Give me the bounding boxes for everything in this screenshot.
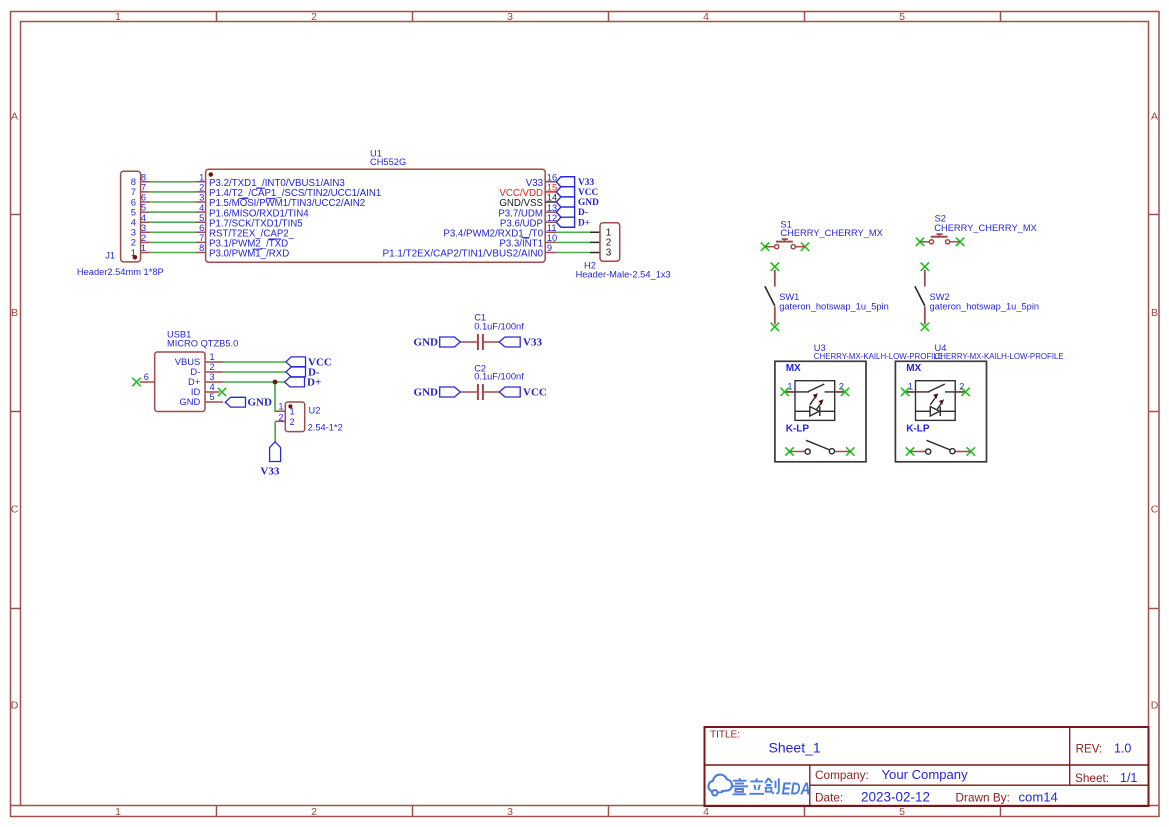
U4 pin stubs [905, 391, 965, 393]
connector U2 [275, 402, 342, 433]
junction dot [273, 380, 278, 385]
column ticks top [217, 12, 1001, 22]
svg-text:CHERRY_CHERRY_MX: CHERRY_CHERRY_MX [780, 228, 882, 238]
svg-text:2023-02-12: 2023-02-12 [861, 790, 930, 805]
svg-text:Header2.54mm 1*8P: Header2.54mm 1*8P [77, 267, 164, 277]
svg-text:GND: GND [248, 397, 273, 409]
svg-text:3: 3 [141, 223, 146, 233]
svg-text:Company:: Company: [815, 768, 869, 782]
pushbutton S2 [916, 214, 1037, 246]
svg-text:8: 8 [141, 172, 146, 182]
svg-text:gateron_hotswap_1u_5pin: gateron_hotswap_1u_5pin [779, 302, 889, 312]
C2 wires [460, 391, 499, 393]
svg-text:REV:: REV: [1076, 742, 1103, 755]
svg-text:0.1uF/100nf: 0.1uF/100nf [474, 322, 524, 332]
svg-text:1: 1 [290, 407, 295, 417]
U1 origin dot [209, 172, 214, 177]
svg-text:MX: MX [906, 363, 921, 374]
svg-text:14: 14 [547, 193, 557, 203]
S2 contacts and actuator [920, 234, 960, 244]
svg-text:EDA: EDA [782, 780, 811, 799]
svg-text:6: 6 [199, 223, 204, 233]
svg-text:Sheet:: Sheet: [1075, 771, 1109, 785]
SW1 X bottom [771, 323, 779, 331]
svg-text:1.0: 1.0 [1114, 741, 1131, 755]
column ticks bottom [217, 806, 1001, 817]
svg-text:V33: V33 [260, 466, 279, 478]
S1 no-connect X left [761, 243, 809, 251]
net flag GND at USB pin5 [225, 397, 245, 407]
svg-text:6: 6 [144, 372, 149, 382]
row ticks left [11, 215, 21, 806]
svg-text:7: 7 [141, 183, 146, 193]
svg-text:B: B [11, 307, 18, 319]
svg-text:1: 1 [199, 173, 204, 183]
U4 LED arrows [930, 396, 942, 411]
U1 right pin numbers [547, 173, 557, 254]
SW1 wires [774, 270, 776, 325]
wire VBUS to VCC [223, 361, 286, 363]
net flag D- [286, 367, 306, 377]
U2 pin stubs [275, 411, 285, 421]
svg-text:2: 2 [199, 183, 204, 193]
U3 switch contacts [795, 384, 835, 392]
svg-text:C: C [11, 504, 19, 516]
net flag V33 VCC GND D- D+ at U1 [556, 177, 574, 228]
capacitor C1 [414, 312, 543, 350]
net flag V33 below U2 [270, 442, 281, 462]
U1 left pin numbers [199, 173, 204, 254]
svg-text:GND: GND [578, 198, 599, 208]
pushbutton S1 [761, 219, 883, 251]
S1 contacts and actuator [765, 239, 805, 249]
svg-text:6: 6 [141, 193, 146, 203]
svg-text:7: 7 [199, 233, 204, 243]
connector H2 [576, 223, 671, 280]
no-connect X pin4 ID [218, 388, 226, 396]
svg-text:V33: V33 [578, 178, 594, 188]
S1 no-connect X right [801, 243, 809, 251]
U3 no-connect X pins [780, 388, 849, 396]
svg-text:K-LP: K-LP [906, 423, 930, 434]
svg-text:0.1uF/100nf: 0.1uF/100nf [474, 371, 524, 381]
svg-text:Date:: Date: [815, 791, 843, 805]
svg-text:15: 15 [547, 183, 557, 193]
svg-text:CHERRY-MX-KAILH-LOW-PROFILE: CHERRY-MX-KAILH-LOW-PROFILE [935, 352, 1064, 361]
svg-text:4: 4 [210, 382, 215, 392]
net flag V33 right [499, 337, 520, 347]
svg-text:V33: V33 [523, 337, 542, 349]
svg-text:Sheet_1: Sheet_1 [769, 740, 821, 756]
svg-text:2: 2 [290, 417, 295, 427]
svg-text:TITLE:: TITLE: [710, 730, 740, 741]
svg-text:CHERRY-MX-KAILH-LOW-PROFILE: CHERRY-MX-KAILH-LOW-PROFILE [814, 352, 943, 361]
svg-text:P1.1/T2EX/CAP2/TIN1/VBUS2/AIN0: P1.1/T2EX/CAP2/TIN1/VBUS2/AIN0 [383, 249, 544, 260]
svg-text:D: D [1151, 700, 1159, 712]
wire D+ [223, 381, 285, 383]
U3 pin stubs [785, 391, 845, 393]
U3 outer box [775, 361, 866, 462]
net flag GND left [440, 337, 461, 347]
svg-text:5: 5 [141, 203, 146, 213]
keyswitch U3 [775, 343, 943, 462]
svg-text:P3.0/PWM1_/RXD: P3.0/PWM1_/RXD [209, 249, 289, 260]
svg-text:3: 3 [507, 806, 513, 818]
svg-text:MX: MX [786, 363, 801, 374]
svg-text:4: 4 [703, 11, 709, 23]
U1 pin name overbars [239, 188, 281, 249]
U1 left pin names [209, 178, 381, 260]
svg-text:D+: D+ [578, 218, 590, 228]
svg-text:8: 8 [199, 243, 204, 253]
svg-text:2: 2 [311, 11, 317, 23]
svg-text:D-: D- [578, 208, 588, 218]
U4 inner box [916, 381, 956, 421]
J1 origin dot [133, 255, 138, 260]
U2 inner numbers [290, 407, 295, 427]
keyswitch U4 [895, 343, 1063, 462]
svg-text:3: 3 [210, 372, 215, 382]
U4 LED diode [916, 407, 956, 416]
svg-text:VCC: VCC [523, 387, 547, 399]
svg-text:1: 1 [131, 248, 136, 259]
connector USB1 [132, 330, 238, 412]
connector J1 [77, 171, 164, 277]
svg-text:D: D [11, 700, 19, 712]
U2 stub numbers [278, 402, 283, 423]
svg-text:1: 1 [115, 806, 121, 818]
svg-text:2: 2 [278, 412, 283, 422]
switch SW2 [915, 263, 1039, 332]
svg-text:16: 16 [547, 173, 557, 183]
U3 inner box [795, 381, 835, 421]
svg-text:J1: J1 [105, 251, 115, 261]
wires J1 to U1 [150, 182, 195, 253]
net flag VCC [285, 357, 306, 387]
wire junction to U2 pin1 [274, 382, 276, 411]
switch SW1 [765, 263, 889, 332]
svg-text:B: B [1151, 307, 1158, 319]
net flag GND left [440, 387, 461, 397]
svg-text:1: 1 [115, 11, 121, 23]
svg-text:4: 4 [141, 213, 146, 223]
svg-text:GND: GND [414, 337, 439, 349]
overbar on INT1 [522, 237, 530, 239]
U1 pin15 stub (VCC) [545, 191, 556, 193]
svg-text:10: 10 [547, 233, 557, 243]
net flag VCC right [499, 387, 520, 397]
U2 origin dot [288, 404, 292, 408]
no-connect X pin6 [132, 378, 226, 396]
svg-text:9: 9 [547, 243, 552, 253]
U4 bottom switch [906, 447, 975, 455]
svg-text:gateron_hotswap_1u_5pin: gateron_hotswap_1u_5pin [930, 302, 1040, 312]
U4 outer box [895, 361, 986, 462]
svg-text:K-LP: K-LP [786, 423, 810, 434]
svg-text:3: 3 [507, 11, 513, 23]
svg-text:Your Company: Your Company [882, 767, 969, 782]
C2 plates [478, 384, 483, 400]
svg-text:2: 2 [311, 806, 317, 818]
U1 pin14 stub (GND) [545, 201, 556, 203]
svg-text:Drawn By:: Drawn By: [956, 791, 1010, 805]
svg-text:Header-Male-2.54_1x3: Header-Male-2.54_1x3 [576, 270, 671, 280]
U4 switch contacts [916, 384, 956, 392]
svg-text:A: A [1151, 111, 1158, 123]
capacitor C2 [414, 363, 547, 400]
svg-text:C: C [1151, 504, 1159, 516]
svg-text:4: 4 [199, 203, 204, 213]
svg-text:2: 2 [210, 362, 215, 372]
svg-text:13: 13 [547, 203, 557, 213]
J1 stub pin numbers [141, 172, 146, 253]
svg-text:2.54-1*2: 2.54-1*2 [308, 423, 343, 433]
S2 no-connect X left [916, 238, 965, 246]
U1 right pin names [383, 178, 544, 260]
net flag D+ [285, 377, 305, 387]
svg-text:1: 1 [210, 352, 215, 362]
svg-text:U2: U2 [309, 406, 321, 416]
SW2 X top [921, 263, 929, 332]
svg-text:com14: com14 [1019, 790, 1058, 805]
svg-text:CHERRY_CHERRY_MX: CHERRY_CHERRY_MX [934, 223, 1036, 233]
SW2 lever [915, 286, 925, 306]
U4 no-connect X pins [901, 388, 970, 396]
wires U1 to H2 [556, 232, 590, 252]
svg-text:5: 5 [199, 213, 204, 223]
row ticks right [1149, 215, 1160, 806]
SW1 lever [765, 286, 775, 306]
C1 plates [478, 334, 483, 350]
title block [705, 727, 1149, 806]
USB1 right pin stubs [205, 362, 223, 402]
svg-text:VCC: VCC [578, 188, 599, 198]
svg-text:GND: GND [414, 387, 439, 399]
U3 LED arrows [810, 396, 822, 411]
svg-text:D+: D+ [307, 377, 321, 389]
IC U1 [195, 148, 557, 262]
svg-text:1: 1 [908, 381, 913, 391]
J1 inner pin numbers [131, 177, 136, 259]
U1 right pin stubs [545, 182, 556, 253]
svg-text:4: 4 [703, 806, 709, 818]
USB1 pin6 stub [140, 381, 155, 383]
svg-text:5: 5 [899, 11, 905, 23]
logo CJK characters [732, 778, 779, 794]
U1 left pin stubs [195, 182, 205, 253]
svg-text:5: 5 [899, 806, 905, 818]
svg-text:12: 12 [547, 213, 557, 223]
USB1 pin numbers [144, 352, 215, 402]
SW1 X top [771, 263, 779, 332]
svg-text:A: A [11, 111, 18, 123]
svg-text:5: 5 [210, 392, 215, 402]
svg-text:1: 1 [278, 402, 283, 412]
svg-text:CH552G: CH552G [370, 157, 406, 167]
wire D- [223, 371, 286, 373]
svg-text:1: 1 [787, 381, 792, 391]
svg-text:2: 2 [141, 233, 146, 243]
C1 wires [460, 341, 499, 343]
logo JLC EDA [708, 775, 732, 796]
svg-text:GND: GND [179, 396, 200, 407]
svg-text:1: 1 [141, 243, 146, 253]
U3 LED diode [795, 407, 835, 416]
svg-text:1/1: 1/1 [1120, 771, 1137, 785]
svg-text:3: 3 [199, 193, 204, 203]
J1 pin stubs [141, 182, 150, 253]
SW2 X bottom [921, 323, 929, 331]
U3 bottom switch [785, 447, 854, 455]
svg-text:MICRO QTZB5.0: MICRO QTZB5.0 [167, 339, 238, 349]
svg-text:3: 3 [606, 248, 612, 259]
S2 no-connect X right [956, 238, 964, 246]
USB1 pin names [175, 356, 201, 407]
SW2 wires [924, 270, 926, 325]
wire U2 pin2 to V33 [274, 421, 276, 441]
svg-text:11: 11 [547, 223, 557, 233]
